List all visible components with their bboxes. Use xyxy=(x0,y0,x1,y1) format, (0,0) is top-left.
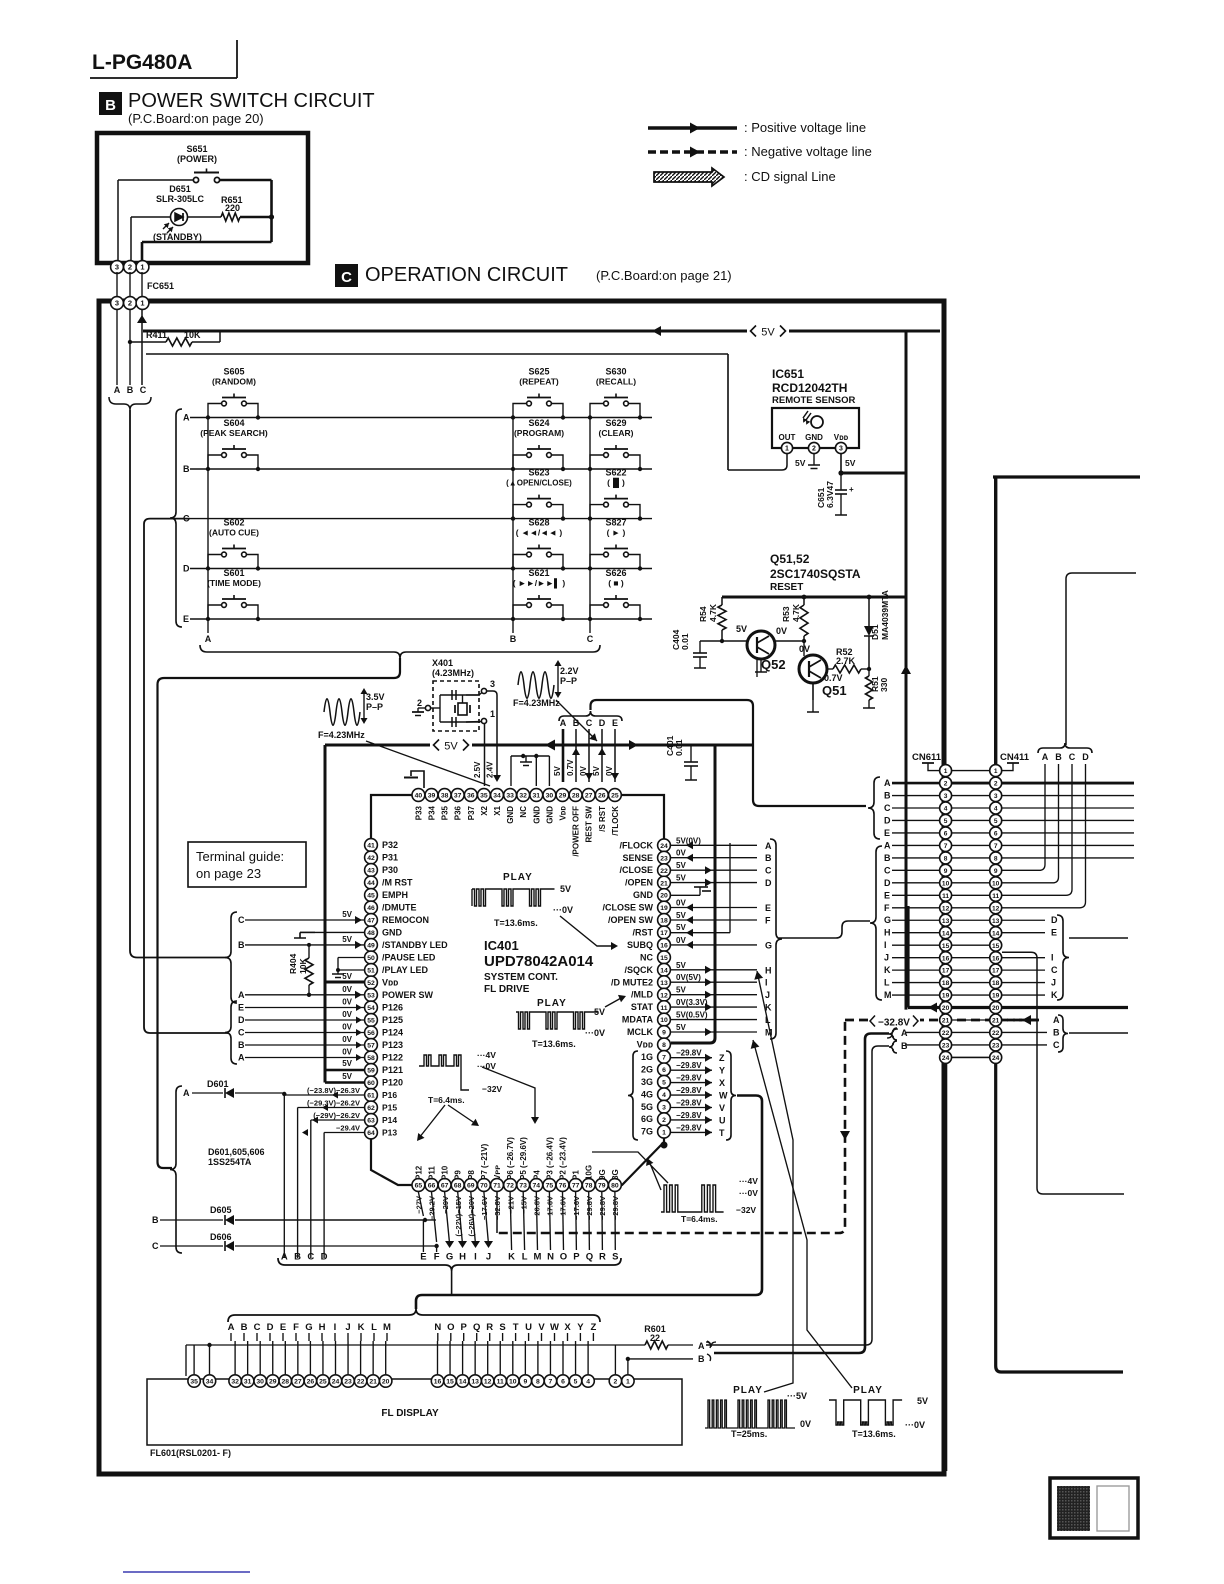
svg-text:2.2V: 2.2V xyxy=(560,666,579,676)
svg-text:42: 42 xyxy=(367,855,375,862)
svg-text:B: B xyxy=(1055,752,1062,762)
wire matrix column bus B xyxy=(512,418,514,620)
svg-text:15: 15 xyxy=(942,943,950,950)
wire 5V vertical to CN611 rail xyxy=(905,331,908,1010)
svg-text:P13: P13 xyxy=(382,1128,397,1138)
svg-text:: CD signal Line: : CD signal Line xyxy=(744,169,836,184)
svg-text:X: X xyxy=(719,1078,725,1088)
svg-text:17: 17 xyxy=(660,930,668,937)
svg-text:L-PG480A: L-PG480A xyxy=(92,51,192,74)
svg-text:5V: 5V xyxy=(795,458,806,468)
svg-text:NC: NC xyxy=(519,806,528,818)
svg-text:2.5V: 2.5V xyxy=(473,761,482,778)
svg-text:−29.8V: −29.8V xyxy=(676,1099,702,1108)
svg-text:N: N xyxy=(434,1322,441,1333)
svg-text:5V: 5V xyxy=(736,624,747,634)
svg-text:5V: 5V xyxy=(676,923,686,932)
svg-text:Z: Z xyxy=(719,1053,725,1063)
svg-text:B: B xyxy=(183,464,190,474)
svg-text:0V(3.3V): 0V(3.3V) xyxy=(676,998,708,1007)
wire pointer from waveform to IC xyxy=(366,741,490,786)
svg-text:: Positive voltage line: : Positive voltage line xyxy=(744,120,866,135)
switch S630 xyxy=(588,367,642,420)
svg-text:70: 70 xyxy=(480,1183,488,1190)
svg-text:I: I xyxy=(884,940,887,950)
svg-text:(AUTO CUE): (AUTO CUE) xyxy=(209,528,259,538)
IC651 pins 1 2 3 xyxy=(781,442,792,453)
svg-text:8: 8 xyxy=(662,1042,666,1049)
svg-text:72: 72 xyxy=(506,1183,514,1190)
svg-text:E: E xyxy=(884,890,890,900)
svg-text:P6 (−26.7V): P6 (−26.7V) xyxy=(506,1137,515,1180)
svg-text:10: 10 xyxy=(660,1017,668,1024)
wire crystal top rail xyxy=(440,694,480,696)
svg-text:/D MUTE2: /D MUTE2 xyxy=(611,977,653,987)
svg-text:53: 53 xyxy=(367,993,375,1000)
svg-text:14: 14 xyxy=(459,1379,467,1386)
svg-text:P35: P35 xyxy=(441,805,450,820)
svg-text:T=13.6ms.: T=13.6ms. xyxy=(852,1429,896,1439)
svg-text:A: A xyxy=(1042,752,1049,762)
svg-text:(PEAK SEARCH): (PEAK SEARCH) xyxy=(200,428,268,438)
svg-text:55: 55 xyxy=(367,1018,375,1025)
svg-text:D: D xyxy=(238,1015,245,1025)
svg-text:S624: S624 xyxy=(528,418,549,428)
svg-text:2: 2 xyxy=(662,1117,666,1124)
switch S602 xyxy=(206,518,260,571)
svg-text:45: 45 xyxy=(367,893,375,900)
svg-text:75: 75 xyxy=(546,1183,554,1190)
svg-text:(4.23MHz): (4.23MHz) xyxy=(432,668,474,678)
brace 1G-7G left xyxy=(628,1051,638,1140)
svg-text:Terminal guide:: Terminal guide: xyxy=(196,849,284,864)
svg-text:60: 60 xyxy=(367,1080,375,1087)
svg-text:R: R xyxy=(486,1322,493,1333)
svg-text:D: D xyxy=(183,564,190,574)
svg-text:1: 1 xyxy=(626,1379,630,1386)
svg-text:S602: S602 xyxy=(223,518,244,528)
svg-text:P12: P12 xyxy=(414,1165,423,1180)
svg-text:A: A xyxy=(698,1341,705,1351)
wire pointer diagonal to H row xyxy=(757,971,793,1392)
svg-text:P7 (−21V): P7 (−21V) xyxy=(480,1143,489,1180)
wire group to right xyxy=(1069,937,1128,939)
svg-text:66: 66 xyxy=(428,1183,436,1190)
svg-text:F=4.23MHz: F=4.23MHz xyxy=(513,698,560,708)
svg-text:(RECALL): (RECALL) xyxy=(596,377,636,387)
wire gnd rail pins 33 31 30 xyxy=(511,755,549,757)
svg-text:P30: P30 xyxy=(382,865,398,875)
svg-text:C: C xyxy=(254,1322,261,1333)
svg-text:28: 28 xyxy=(282,1379,290,1386)
svg-text:10: 10 xyxy=(942,880,950,887)
svg-text:5V: 5V xyxy=(342,1072,352,1081)
svg-text:H: H xyxy=(765,965,772,975)
svg-text:PLAY: PLAY xyxy=(537,998,567,1009)
wire matrix columns bundle to connector xyxy=(158,658,401,1168)
svg-text:T=13.6ms.: T=13.6ms. xyxy=(532,1039,576,1049)
svg-text:C: C xyxy=(238,1028,245,1038)
svg-text:B: B xyxy=(573,718,580,728)
svg-text:62: 62 xyxy=(367,1105,375,1112)
ground gnd rail xyxy=(525,756,527,762)
svg-text:27: 27 xyxy=(294,1379,302,1386)
svg-text:2: 2 xyxy=(417,698,422,708)
svg-text:A: A xyxy=(1053,1015,1060,1025)
svg-text:F: F xyxy=(765,916,771,926)
svg-text:57: 57 xyxy=(367,1043,375,1050)
svg-text:5V: 5V xyxy=(845,458,856,468)
svg-text:0V: 0V xyxy=(800,1419,811,1429)
svg-text:Z: Z xyxy=(590,1322,596,1333)
svg-text:2.4V: 2.4V xyxy=(486,761,495,778)
svg-text:N: N xyxy=(547,1252,554,1263)
svg-text:E: E xyxy=(183,614,189,624)
svg-text:(STANDBY): (STANDBY) xyxy=(153,232,202,242)
wire CN411 top feed xyxy=(993,475,1140,478)
svg-text:3: 3 xyxy=(662,1104,666,1111)
svg-text:32: 32 xyxy=(519,793,527,800)
svg-text:S622: S622 xyxy=(605,468,626,478)
svg-text:1: 1 xyxy=(944,768,948,775)
switch S626 xyxy=(588,568,642,621)
svg-text:···0V: ···0V xyxy=(739,1188,758,1198)
brace IC-side A-M xyxy=(770,839,782,1039)
wire -32.8V down xyxy=(497,1022,845,1233)
bracket bottom bundle xyxy=(278,1258,621,1271)
svg-text:K: K xyxy=(358,1322,365,1333)
section badge B xyxy=(99,92,122,115)
svg-text:F: F xyxy=(293,1322,299,1333)
section badge C xyxy=(335,264,358,287)
svg-text:5G: 5G xyxy=(641,1102,653,1112)
svg-text:I: I xyxy=(334,1322,337,1333)
svg-text:0V(5V): 0V(5V) xyxy=(676,973,701,982)
wire A-E feed from connector xyxy=(591,700,867,806)
brace Z-T right xyxy=(726,1051,736,1140)
svg-text:9: 9 xyxy=(994,868,998,875)
svg-text:69: 69 xyxy=(467,1183,475,1190)
svg-text:W: W xyxy=(550,1322,559,1333)
svg-text:RESET: RESET xyxy=(770,582,803,593)
svg-text:P9: P9 xyxy=(454,1170,463,1180)
svg-text:Q: Q xyxy=(586,1252,593,1263)
svg-text:D: D xyxy=(599,718,606,728)
svg-text:P5 (−29.6V): P5 (−29.6V) xyxy=(519,1137,528,1180)
svg-text:STAT: STAT xyxy=(631,1002,654,1012)
svg-text:49: 49 xyxy=(367,943,375,950)
svg-text:20: 20 xyxy=(992,1005,1000,1012)
svg-text:E: E xyxy=(612,718,618,728)
wire inner boundary xyxy=(146,353,728,355)
IC401 top pins 40-25 xyxy=(412,789,425,802)
svg-text:19: 19 xyxy=(660,905,668,912)
wire A row22 long xyxy=(714,1034,889,1354)
svg-text:11: 11 xyxy=(660,1005,667,1012)
svg-text:5V: 5V xyxy=(917,1396,928,1406)
svg-text:6G: 6G xyxy=(641,1114,653,1124)
wire 5V rail over IC401 xyxy=(325,744,753,747)
svg-text:/DMUTE: /DMUTE xyxy=(382,903,417,913)
svg-text:40: 40 xyxy=(415,793,423,800)
svg-text:2.7K: 2.7K xyxy=(836,656,856,666)
svg-text:52: 52 xyxy=(367,980,375,987)
brace E D C B A group xyxy=(225,1001,237,1064)
svg-text:C: C xyxy=(341,269,352,286)
svg-text:47: 47 xyxy=(367,918,375,925)
svg-text:0V: 0V xyxy=(776,626,787,636)
connector CN411 pins xyxy=(990,765,1002,777)
svg-text:13: 13 xyxy=(942,918,950,925)
svg-text:0V: 0V xyxy=(342,1023,352,1032)
svg-text:P: P xyxy=(461,1322,468,1333)
svg-text:···4V: ···4V xyxy=(477,1050,496,1060)
svg-text:7: 7 xyxy=(994,843,998,850)
svg-text:0V: 0V xyxy=(676,899,686,908)
svg-text:17: 17 xyxy=(992,968,1000,975)
waveform 3.5V P-P xyxy=(324,699,360,726)
wire 5V reset rail xyxy=(722,596,906,599)
svg-text:16: 16 xyxy=(992,955,1000,962)
svg-text:8G: 8G xyxy=(611,1169,620,1180)
svg-text:24: 24 xyxy=(660,843,668,850)
svg-text:( ►►/►►▌ ): ( ►►/►►▌ ) xyxy=(513,578,566,589)
svg-text:D606: D606 xyxy=(210,1232,232,1242)
svg-text:58: 58 xyxy=(367,1055,375,1062)
svg-text:74: 74 xyxy=(533,1183,541,1190)
svg-text:P124: P124 xyxy=(382,1028,403,1038)
svg-text:J: J xyxy=(345,1322,350,1333)
svg-text:0V: 0V xyxy=(605,766,614,776)
svg-text:10: 10 xyxy=(509,1379,517,1386)
svg-text:C: C xyxy=(1051,965,1058,975)
wire pin1 up arrow xyxy=(141,309,143,385)
capacitor crystal top xyxy=(451,690,453,700)
brace matrix rows xyxy=(170,409,182,627)
switch S625 xyxy=(511,367,565,420)
svg-text:31: 31 xyxy=(533,793,541,800)
svg-text:48: 48 xyxy=(367,930,375,937)
svg-text:0V: 0V xyxy=(676,849,686,858)
wire VDD rail right down to pin 8 xyxy=(671,745,715,1043)
svg-text:B: B xyxy=(152,1215,159,1225)
svg-text:(PROGRAM): (PROGRAM) xyxy=(514,428,564,438)
svg-text:5V: 5V xyxy=(676,874,686,883)
svg-text:P120: P120 xyxy=(382,1078,403,1088)
wire ABCD bundle from right xyxy=(1066,573,1136,745)
svg-text:50: 50 xyxy=(367,955,375,962)
svg-text:0.7V: 0.7V xyxy=(824,673,843,683)
svg-text:X401: X401 xyxy=(432,658,453,668)
svg-text:Y: Y xyxy=(577,1322,584,1333)
svg-text:/POWER OFF: /POWER OFF xyxy=(572,806,581,857)
svg-text:51: 51 xyxy=(367,968,375,975)
bracket letters A-Z xyxy=(228,1309,600,1322)
svg-text:12: 12 xyxy=(660,992,668,999)
svg-text:V: V xyxy=(719,1103,725,1113)
power switch circuit box xyxy=(97,133,308,263)
legend positive voltage line xyxy=(648,126,737,130)
svg-text:(▐▌): (▐▌) xyxy=(607,478,625,489)
svg-text:( ■ ): ( ■ ) xyxy=(608,578,624,588)
capacitor crystal bottom xyxy=(451,717,453,727)
svg-text:3: 3 xyxy=(115,299,119,308)
wire power switch row xyxy=(118,179,193,181)
wires IC right rows to letters xyxy=(671,844,757,846)
svg-text:29: 29 xyxy=(269,1379,277,1386)
svg-text:23: 23 xyxy=(660,855,668,862)
operation circuit box xyxy=(99,301,944,1474)
svg-text:G: G xyxy=(305,1322,312,1333)
svg-text:1SS254TA: 1SS254TA xyxy=(208,1157,252,1167)
svg-text:D: D xyxy=(884,878,891,888)
svg-text:F: F xyxy=(434,1252,440,1263)
svg-text:20: 20 xyxy=(660,893,668,900)
svg-text:G: G xyxy=(884,915,891,925)
svg-text:5V: 5V xyxy=(676,861,686,870)
svg-text:A: A xyxy=(114,385,121,395)
svg-text:22: 22 xyxy=(942,1030,950,1037)
svg-text:3: 3 xyxy=(839,446,843,453)
svg-text:5V: 5V xyxy=(342,910,352,919)
row 21 negative dashed -32.8V xyxy=(845,1019,1040,1022)
svg-text:J: J xyxy=(486,1252,491,1263)
svg-text:F=4.23MHz: F=4.23MHz xyxy=(318,730,365,740)
wire A-line FL xyxy=(186,1344,645,1346)
svg-text:P36: P36 xyxy=(454,805,463,820)
svg-text:39: 39 xyxy=(428,793,436,800)
svg-text:···4V: ···4V xyxy=(739,1176,758,1186)
svg-text:2: 2 xyxy=(614,1379,618,1386)
svg-text:43: 43 xyxy=(367,868,375,875)
svg-text:D: D xyxy=(765,878,772,888)
wire VDD pin3 to 5V node xyxy=(840,454,842,473)
svg-text:SLR-305LC: SLR-305LC xyxy=(156,194,205,204)
svg-text:X2: X2 xyxy=(480,805,489,815)
svg-text:S629: S629 xyxy=(605,418,626,428)
switch S629 xyxy=(588,418,642,471)
wire 5V rail top xyxy=(143,330,940,333)
legend CD signal line xyxy=(654,168,724,186)
svg-text:9: 9 xyxy=(523,1379,527,1386)
svg-text:−29.8V: −29.8V xyxy=(676,1111,702,1120)
svg-text:5V: 5V xyxy=(676,986,686,995)
svg-text:7: 7 xyxy=(944,843,948,850)
wire matrix row C feed xyxy=(144,519,228,1033)
svg-text:B: B xyxy=(127,385,134,395)
brace CN611 A-M xyxy=(870,846,882,1000)
svg-text:C: C xyxy=(765,866,772,876)
svg-text:GND: GND xyxy=(506,806,515,824)
svg-text:−29.8V: −29.8V xyxy=(676,1123,702,1132)
svg-text:P11: P11 xyxy=(428,1166,437,1180)
svg-text:6: 6 xyxy=(994,831,998,838)
IC401 bottom pins 65-80 xyxy=(412,1179,425,1192)
wire B row23 long xyxy=(706,1046,889,1345)
svg-text:30: 30 xyxy=(546,793,554,800)
svg-text:R411: R411 xyxy=(146,330,167,340)
svg-text:5V: 5V xyxy=(676,1023,686,1032)
svg-text:B: B xyxy=(241,1322,248,1333)
svg-text:PLAY: PLAY xyxy=(853,1385,883,1396)
rows CN411 right xyxy=(1002,782,1134,785)
svg-text:5V: 5V xyxy=(444,741,458,753)
svg-text:I: I xyxy=(765,978,768,988)
svg-text:D651: D651 xyxy=(169,184,191,194)
svg-text:14: 14 xyxy=(660,967,668,974)
svg-text:/OPEN: /OPEN xyxy=(625,878,653,888)
svg-text:G: G xyxy=(765,940,772,950)
svg-text:5: 5 xyxy=(574,1379,578,1386)
svg-text:/PLAY LED: /PLAY LED xyxy=(382,965,429,975)
svg-text:A: A xyxy=(884,840,891,850)
wire bundle tail xyxy=(451,1271,453,1295)
svg-text:P3 (−26.4V): P3 (−26.4V) xyxy=(545,1137,554,1180)
IC401 right pins 24-1 xyxy=(658,839,671,852)
svg-text:F: F xyxy=(884,903,890,913)
svg-text:SENSE: SENSE xyxy=(622,853,653,863)
svg-text:0V: 0V xyxy=(676,936,686,945)
svg-text:5V: 5V xyxy=(676,961,686,970)
svg-text:13: 13 xyxy=(471,1379,479,1386)
svg-text:79: 79 xyxy=(598,1183,606,1190)
svg-text:15: 15 xyxy=(992,943,1000,950)
svg-text:12: 12 xyxy=(484,1379,492,1386)
svg-text:16: 16 xyxy=(660,943,668,950)
svg-text:54: 54 xyxy=(367,1005,375,1012)
svg-text:6: 6 xyxy=(944,831,948,838)
svg-text:C: C xyxy=(587,634,594,644)
svg-text:−29.8V: −29.8V xyxy=(676,1061,702,1070)
svg-text:T=6.4ms.: T=6.4ms. xyxy=(681,1214,718,1224)
connector CN611 pins xyxy=(940,765,952,777)
svg-text:E: E xyxy=(420,1252,426,1263)
svg-text:C: C xyxy=(152,1241,159,1251)
svg-text:O: O xyxy=(560,1252,567,1263)
svg-text:35: 35 xyxy=(190,1379,198,1386)
svg-text:U: U xyxy=(525,1322,532,1333)
terminal guide note box xyxy=(188,842,306,887)
svg-text:/MLD: /MLD xyxy=(631,990,653,1000)
svg-text:M: M xyxy=(383,1322,391,1333)
svg-text:T=25ms.: T=25ms. xyxy=(731,1429,767,1439)
svg-text:5V: 5V xyxy=(761,327,775,339)
svg-text:J: J xyxy=(765,990,770,1000)
wire CN pin24 join xyxy=(952,1056,990,1058)
waveform T=6.4ms right xyxy=(661,1185,724,1212)
svg-text:W: W xyxy=(719,1091,728,1101)
wire S-link G row xyxy=(779,921,870,938)
wire pins 2 1 FL xyxy=(614,1345,616,1374)
rows between connectors xyxy=(952,770,990,772)
svg-text:R404: R404 xyxy=(288,953,298,974)
svg-text:4: 4 xyxy=(994,806,998,813)
ground CN411 pin1 xyxy=(1002,763,1013,771)
svg-text:/M RST: /M RST xyxy=(382,878,413,888)
svg-text:4.7K: 4.7K xyxy=(791,603,801,622)
svg-text:C: C xyxy=(1069,752,1076,762)
svg-text:E: E xyxy=(238,1003,244,1013)
svg-text:IC651: IC651 xyxy=(772,367,804,381)
svg-text:11: 11 xyxy=(497,1379,504,1386)
svg-text:L: L xyxy=(884,978,890,988)
svg-text:OPERATION CIRCUIT: OPERATION CIRCUIT xyxy=(365,264,568,286)
wires 1G-7G to letters Z-T xyxy=(671,1057,712,1059)
svg-text:S605: S605 xyxy=(223,367,244,377)
wire VDD rail left down to pin 52 xyxy=(324,745,327,1083)
svg-text:36: 36 xyxy=(467,793,475,800)
svg-text:11: 11 xyxy=(942,893,949,900)
